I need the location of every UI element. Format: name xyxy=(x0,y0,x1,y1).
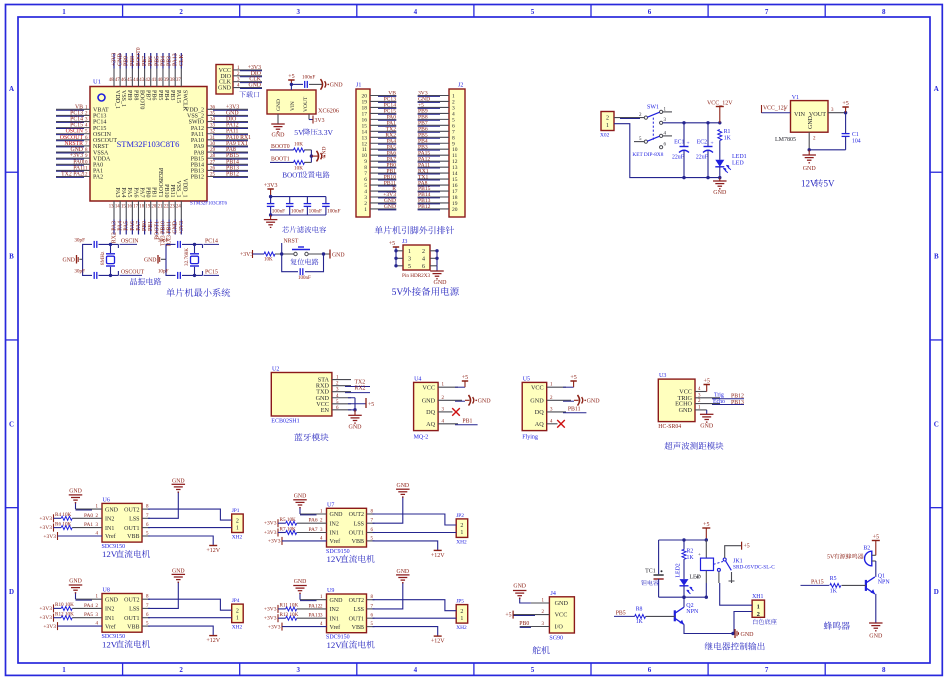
relay JK1 coil xyxy=(698,540,714,597)
svg-text:6: 6 xyxy=(648,8,652,16)
svg-text:13: 13 xyxy=(109,205,114,210)
svg-text:45: 45 xyxy=(127,78,132,83)
net label PB0 xyxy=(142,221,148,231)
svg-text:+3V3: +3V3 xyxy=(268,624,281,630)
U1 pin 38 wire top xyxy=(174,53,176,87)
U8 pin 5 wire VBB to +12V xyxy=(142,622,221,645)
U1 pin 11 number xyxy=(83,166,88,171)
svg-text:1: 1 xyxy=(757,603,760,610)
U1 pin 1 number xyxy=(85,105,88,110)
power +3V3 row4 xyxy=(43,622,102,631)
net label PA12 xyxy=(418,156,430,162)
svg-text:PA15: PA15 xyxy=(175,90,181,103)
svg-text:17: 17 xyxy=(133,205,138,210)
wires J3 right pins xyxy=(430,249,439,266)
svg-text:JP5: JP5 xyxy=(456,599,464,605)
net label PB5 xyxy=(418,132,428,138)
resistor R2 1K xyxy=(682,540,694,561)
svg-text:X02: X02 xyxy=(600,133,610,139)
svg-text:GND: GND xyxy=(144,257,157,263)
U1 pin 32 number xyxy=(210,130,216,135)
net label PA9 TX1 xyxy=(226,141,248,147)
connector J3 Pin HDR2X3 xyxy=(402,239,431,279)
svg-text:PB6: PB6 xyxy=(148,56,154,66)
svg-text:PA2: PA2 xyxy=(93,175,103,181)
wire bottom bus xyxy=(269,213,326,216)
connector J2 header xyxy=(449,83,465,218)
wire button to GND xyxy=(308,252,330,255)
svg-text:1: 1 xyxy=(236,615,239,621)
svg-text:PA4: PA4 xyxy=(120,187,126,197)
svg-text:LSS: LSS xyxy=(129,517,139,523)
svg-text:J4: J4 xyxy=(551,591,556,597)
svg-text:PC14: PC14 xyxy=(70,117,83,123)
svg-text:+5: +5 xyxy=(288,74,294,80)
net label PC14 xyxy=(70,117,83,123)
svg-text:SG90: SG90 xyxy=(549,636,563,642)
U1 pin 28 PB15 wire xyxy=(207,157,248,160)
power +3V3 row2 xyxy=(39,514,61,522)
svg-text:PB5: PB5 xyxy=(157,90,163,100)
U1 pin 35 VSS_2 wire xyxy=(207,114,248,117)
svg-text:PC13: PC13 xyxy=(70,110,83,116)
net label +3V3 xyxy=(179,221,185,234)
svg-text:BOOT: BOOT xyxy=(282,172,302,180)
net label PB4 xyxy=(160,56,166,66)
U1 pin 41 number xyxy=(152,78,157,83)
U5 pin 2 wire to GND xyxy=(547,395,601,406)
J2 pin 12 wire xyxy=(418,160,449,163)
svg-text:1: 1 xyxy=(408,249,411,255)
U7 pin 2 wire PA6 xyxy=(297,518,327,524)
motor driver U8 SDC9150 body xyxy=(102,588,143,641)
svg-text:23: 23 xyxy=(170,205,175,210)
svg-text:100nF: 100nF xyxy=(327,209,340,215)
svg-text:PA1: PA1 xyxy=(73,165,83,171)
svg-text:VB: VB xyxy=(75,104,83,110)
svg-text:XH2: XH2 xyxy=(456,625,467,631)
wire OSCOUT xyxy=(99,271,119,277)
relay JK1 switch xyxy=(714,542,776,583)
svg-text:1: 1 xyxy=(62,666,66,674)
svg-text:J2: J2 xyxy=(458,83,463,89)
svg-text:PB5: PB5 xyxy=(616,611,626,617)
wire VOUT to 3V3 xyxy=(309,114,313,120)
U1 pin 4 number xyxy=(85,124,88,129)
svg-text:R12 10K: R12 10K xyxy=(55,612,74,618)
svg-text:OUT1: OUT1 xyxy=(349,616,364,622)
module U3 HC-SR04 body xyxy=(658,373,695,430)
svg-text:GND: GND xyxy=(587,399,601,405)
svg-text:Pin HDR2X3: Pin HDR2X3 xyxy=(402,273,431,279)
wire crystal frame xyxy=(83,244,92,275)
svg-text:U8: U8 xyxy=(103,588,110,594)
title 12V DC motor xyxy=(102,639,150,649)
svg-text:CLK: CLK xyxy=(179,54,185,66)
wire switch pin4 stub xyxy=(663,135,672,137)
J2 pin 6 wire xyxy=(418,124,449,127)
svg-text:BOOT1: BOOT1 xyxy=(271,157,290,163)
net label GND xyxy=(226,110,239,116)
svg-text:VDD_1: VDD_1 xyxy=(181,179,187,198)
power GND left xyxy=(62,255,82,264)
svg-text:LSS: LSS xyxy=(354,521,364,527)
power GND rotated xyxy=(317,147,328,162)
svg-text:5: 5 xyxy=(408,264,411,270)
svg-text:12V: 12V xyxy=(327,554,343,564)
svg-text:OUT1: OUT1 xyxy=(349,531,364,537)
U1 pin 26 PB13 wire xyxy=(207,169,248,172)
net label PB7 xyxy=(418,121,428,127)
svg-text:6: 6 xyxy=(648,666,652,674)
wire BOOT0 to junction xyxy=(304,149,311,151)
svg-text:+5: +5 xyxy=(744,544,750,550)
power +3V3 row3 xyxy=(264,529,286,537)
svg-text:2: 2 xyxy=(179,666,183,674)
svg-text:VCC: VCC xyxy=(531,384,544,391)
power GND port xyxy=(321,79,344,90)
svg-text:PC15: PC15 xyxy=(205,270,218,276)
J2 pin 14 wire xyxy=(418,172,449,175)
net label RX2 xyxy=(355,386,366,392)
wire to GND xyxy=(311,155,318,157)
svg-text:10K: 10K xyxy=(294,142,303,148)
net label PB7 xyxy=(142,56,148,66)
svg-text:GND: GND xyxy=(803,166,817,172)
svg-text:33: 33 xyxy=(210,124,216,129)
svg-text:10K: 10K xyxy=(264,258,273,263)
resistor R7 10K xyxy=(280,526,297,534)
J2 pin 20 wire xyxy=(418,208,449,211)
svg-text:JP4: JP4 xyxy=(232,598,240,604)
svg-text:VBB: VBB xyxy=(352,539,364,545)
svg-text:NPN: NPN xyxy=(686,609,699,615)
U1 pin 6 OSCOUT wire xyxy=(56,139,90,142)
U1 pin 16 number xyxy=(127,205,132,210)
svg-text:VBB: VBB xyxy=(127,624,139,630)
power +5 port xyxy=(288,74,294,84)
J1 pin 2 wire xyxy=(370,202,396,205)
J1 pin 12 wire xyxy=(370,142,396,145)
resistor R4 10K xyxy=(55,512,72,520)
svg-text:OSCOUT: OSCOUT xyxy=(121,270,145,276)
U1 pin 21 wire bottom xyxy=(162,201,164,235)
svg-text:VSSA: VSSA xyxy=(93,150,109,156)
U1 pin 13 wire bottom xyxy=(113,201,115,235)
ground xyxy=(348,410,362,431)
net label PA0 xyxy=(73,159,83,165)
J1 pin 11 wire xyxy=(370,148,396,151)
svg-text:30pF: 30pF xyxy=(74,269,85,275)
svg-text:4: 4 xyxy=(422,256,425,262)
svg-text:OSCOUT: OSCOUT xyxy=(60,135,84,141)
svg-text:OUT2: OUT2 xyxy=(124,597,139,603)
svg-text:PA12: PA12 xyxy=(309,603,321,609)
net label PA7 xyxy=(387,156,397,162)
svg-text:OSCIN: OSCIN xyxy=(121,238,139,244)
svg-text:GND: GND xyxy=(330,83,344,89)
wire BOOT1 to junction xyxy=(304,161,311,163)
svg-text:+5: +5 xyxy=(873,535,879,541)
svg-text:SWIO: SWIO xyxy=(189,120,205,126)
svg-text:NRSTR: NRSTR xyxy=(64,141,83,147)
resistor R5 1K xyxy=(830,576,866,595)
J1 pin 1 wire xyxy=(370,208,396,211)
svg-text:XH2: XH2 xyxy=(456,539,467,545)
net label BOOT1 xyxy=(154,221,160,240)
net label PB14 xyxy=(418,192,431,198)
U1 pin 30 number xyxy=(210,142,216,147)
svg-text:U6: U6 xyxy=(103,497,110,503)
net label PA0 xyxy=(387,115,397,121)
svg-text:Echo: Echo xyxy=(713,399,725,405)
power +5 xyxy=(366,398,374,408)
svg-text:R7 10K: R7 10K xyxy=(280,526,297,532)
capacitor C2 100nF xyxy=(267,197,285,215)
U9 pin 6 wire OUT1 xyxy=(367,614,457,619)
U6 pin 6 wire OUT1 xyxy=(142,523,232,528)
svg-text:GND: GND xyxy=(332,252,345,258)
net label PA15 xyxy=(418,150,430,156)
svg-text:VCC_12V: VCC_12V xyxy=(707,101,733,107)
svg-text:8MHz: 8MHz xyxy=(100,251,106,265)
U2 pin 5 wire xyxy=(332,400,366,405)
svg-text:100nF: 100nF xyxy=(302,75,315,81)
J2 pin 1 wire xyxy=(418,95,449,98)
svg-text:14: 14 xyxy=(115,205,120,210)
svg-text:XH1: XH1 xyxy=(752,594,763,600)
wire GND-EN join xyxy=(353,398,356,412)
svg-text:PA9: PA9 xyxy=(194,144,204,150)
U4 pin 4 net label PB1 xyxy=(438,419,478,425)
svg-text:GND: GND xyxy=(478,399,492,405)
title chip filter capacitors xyxy=(282,226,326,233)
download port pin 3 number xyxy=(237,78,240,83)
title BOOT setting circuit xyxy=(282,171,329,179)
U1 pin 31 number xyxy=(210,136,216,141)
svg-text:IN1: IN1 xyxy=(105,526,114,532)
J2 pin 4 wire xyxy=(418,112,449,115)
svg-text:VOUT: VOUT xyxy=(303,96,309,112)
power +3V3 row2 xyxy=(264,605,286,613)
connector J4 SG90 servo body xyxy=(549,591,574,642)
svg-text:PC13: PC13 xyxy=(93,114,106,120)
net label GND xyxy=(173,221,179,234)
svg-text:31: 31 xyxy=(210,136,216,141)
svg-text:PA6: PA6 xyxy=(130,221,136,231)
net label PA4 xyxy=(118,221,124,231)
net label BOOT0 xyxy=(270,144,294,150)
net label PC13 xyxy=(70,110,83,116)
svg-text:+3V3: +3V3 xyxy=(226,104,239,110)
svg-text:PB6: PB6 xyxy=(151,90,157,100)
net label TX2 xyxy=(386,127,396,133)
wire PC14 xyxy=(182,243,203,248)
svg-text:PB1: PB1 xyxy=(462,419,472,425)
capacitor C5 100nF xyxy=(322,197,340,215)
svg-text:GND: GND xyxy=(272,133,286,139)
U7 pin 7 wire LSS to GND xyxy=(367,483,410,524)
svg-text:PA5: PA5 xyxy=(84,612,93,618)
capacitor 100nF xyxy=(302,75,315,88)
sensor U5 Flying body xyxy=(522,377,547,441)
svg-text:2: 2 xyxy=(236,608,239,614)
U1 pin 28 number xyxy=(210,154,216,159)
svg-text:KET DIP-8X8: KET DIP-8X8 xyxy=(632,152,663,158)
svg-text:+: + xyxy=(698,553,701,558)
U1 pin 29 number xyxy=(210,148,216,153)
svg-text:PA13: PA13 xyxy=(309,613,321,619)
svg-text:+12V: +12V xyxy=(206,548,220,554)
resistor R6 10K xyxy=(55,521,72,529)
svg-text:BOOT0: BOOT0 xyxy=(136,47,142,66)
net label +3V3 xyxy=(226,104,239,110)
svg-text:PB14: PB14 xyxy=(191,162,204,168)
wire XH1 pin2 xyxy=(734,612,752,634)
svg-text:PB7: PB7 xyxy=(142,56,148,66)
svg-text:38: 38 xyxy=(170,78,175,83)
net label PB4 xyxy=(418,138,428,144)
U1 pin 35 number xyxy=(210,111,216,116)
U1 pin 24 wire bottom xyxy=(180,201,182,235)
capacitor C3 100nF xyxy=(286,197,304,215)
capacitor C1 104 xyxy=(842,113,861,150)
svg-text:PA11: PA11 xyxy=(191,132,204,138)
svg-text:32.768K: 32.768K xyxy=(184,248,190,266)
U1 pin 47 number xyxy=(115,78,120,83)
U1 pin 13 number xyxy=(109,205,114,210)
U1 pin 39 wire top xyxy=(168,53,170,87)
power +3V3 row3 xyxy=(264,614,286,622)
push button S1 reset xyxy=(292,247,310,256)
svg-text:PB1: PB1 xyxy=(148,221,154,231)
U8 pin 8 wire OUT2 xyxy=(142,595,232,611)
svg-text:PA8: PA8 xyxy=(194,150,204,156)
svg-text:JP1: JP1 xyxy=(232,508,240,514)
svg-text:11: 11 xyxy=(83,166,88,171)
svg-text:3: 3 xyxy=(297,8,301,16)
transistor Q2 NPN xyxy=(675,596,735,636)
net label PC13 xyxy=(384,97,397,103)
svg-text:J3: J3 xyxy=(402,239,407,245)
svg-text:PB3: PB3 xyxy=(169,90,175,100)
U1 pin 8 number xyxy=(85,148,88,153)
svg-text:GND: GND xyxy=(530,397,544,404)
svg-text:Trig: Trig xyxy=(714,393,724,399)
svg-text:PA5: PA5 xyxy=(124,221,130,231)
ground xyxy=(430,266,447,286)
svg-text:+3V3: +3V3 xyxy=(264,183,278,189)
title 12V DC motor xyxy=(327,554,375,564)
net label TX1 xyxy=(418,174,428,180)
svg-text:PB3: PB3 xyxy=(167,56,173,66)
connector JP2 XH2 xyxy=(456,513,468,546)
svg-text:+3V3: +3V3 xyxy=(39,525,52,531)
power +3V3 row3 xyxy=(39,614,61,622)
svg-text:BOOT0: BOOT0 xyxy=(138,90,144,109)
crystal Y1 8MHz xyxy=(100,244,115,275)
net label PA5 xyxy=(387,144,397,150)
net label PC14 xyxy=(204,238,220,244)
svg-text:30: 30 xyxy=(210,142,216,147)
svg-text:5V: 5V xyxy=(294,128,304,137)
svg-text:LSS: LSS xyxy=(354,607,364,613)
wire GND pin xyxy=(277,114,279,124)
svg-text:Vref: Vref xyxy=(330,624,341,631)
svg-text:OUT1: OUT1 xyxy=(124,616,139,622)
resistor R10 10K xyxy=(55,602,74,610)
U6 pin 7 wire LSS to GND xyxy=(142,478,185,519)
svg-text:GND: GND xyxy=(397,569,410,575)
U1 pin 15 wire bottom xyxy=(125,201,127,235)
svg-text:PB8: PB8 xyxy=(130,56,136,66)
title buzzer xyxy=(824,622,850,630)
U3 pin 3 wire Trig PB12 xyxy=(695,393,744,400)
net label GND xyxy=(118,53,124,66)
svg-text:PA9 TX1: PA9 TX1 xyxy=(226,141,248,147)
U1 pin 5 number xyxy=(85,130,88,135)
svg-text:6: 6 xyxy=(422,264,425,270)
svg-text:PA10: PA10 xyxy=(191,138,204,144)
svg-text:46: 46 xyxy=(121,78,126,83)
net label NRST xyxy=(282,239,299,255)
net label PB3 xyxy=(418,144,428,150)
svg-text:+5: +5 xyxy=(505,613,511,619)
svg-text:PB5: PB5 xyxy=(154,56,160,66)
net label PA11 xyxy=(226,129,239,135)
U1 pin 22 number xyxy=(164,205,169,210)
svg-text:D: D xyxy=(9,588,14,596)
J1 pin 5 wire xyxy=(370,184,396,187)
svg-text:GND: GND xyxy=(226,110,239,116)
svg-text:R5: R5 xyxy=(830,576,837,582)
label KET DIP-8X8 xyxy=(632,152,663,158)
J2 pin 15 wire xyxy=(418,178,449,181)
svg-text:GND: GND xyxy=(276,99,282,111)
svg-text:B: B xyxy=(9,253,14,261)
net label DIO xyxy=(226,117,236,123)
download port pin 1 wire xyxy=(233,69,262,72)
svg-text:VSS_1: VSS_1 xyxy=(120,90,126,107)
net label PB15 xyxy=(226,153,239,159)
U4 pin 1 wire to +5 xyxy=(438,375,468,388)
svg-text:+3V3: +3V3 xyxy=(268,539,281,545)
svg-text:R13 10K: R13 10K xyxy=(280,612,299,618)
net label PA5 xyxy=(124,221,130,231)
svg-text:PB0: PB0 xyxy=(145,187,151,197)
U1 pin 2 number xyxy=(85,111,88,116)
svg-text:PA1: PA1 xyxy=(84,522,93,528)
U1 pin 45 number xyxy=(127,78,132,83)
J1 pin 10 wire xyxy=(370,154,396,157)
svg-text:MQ-2: MQ-2 xyxy=(414,434,429,440)
net label PB5 xyxy=(154,56,160,66)
svg-text:R11 10K: R11 10K xyxy=(280,603,299,609)
J1 pin 16 wire xyxy=(370,118,396,121)
wire input xyxy=(762,108,791,113)
svg-text:+3V3: +3V3 xyxy=(264,606,277,612)
net label GND xyxy=(384,198,396,204)
svg-text:GND: GND xyxy=(105,597,119,603)
ground xyxy=(869,623,883,640)
U1 pin 42 wire top xyxy=(150,53,152,87)
capacitor C6 100nF xyxy=(298,268,311,281)
svg-text:+3V3: +3V3 xyxy=(264,616,277,622)
U1 pin 7 NRST wire xyxy=(56,145,90,148)
wire top bus xyxy=(269,195,326,198)
svg-text:12V: 12V xyxy=(102,639,118,649)
svg-text:U1: U1 xyxy=(93,79,101,86)
